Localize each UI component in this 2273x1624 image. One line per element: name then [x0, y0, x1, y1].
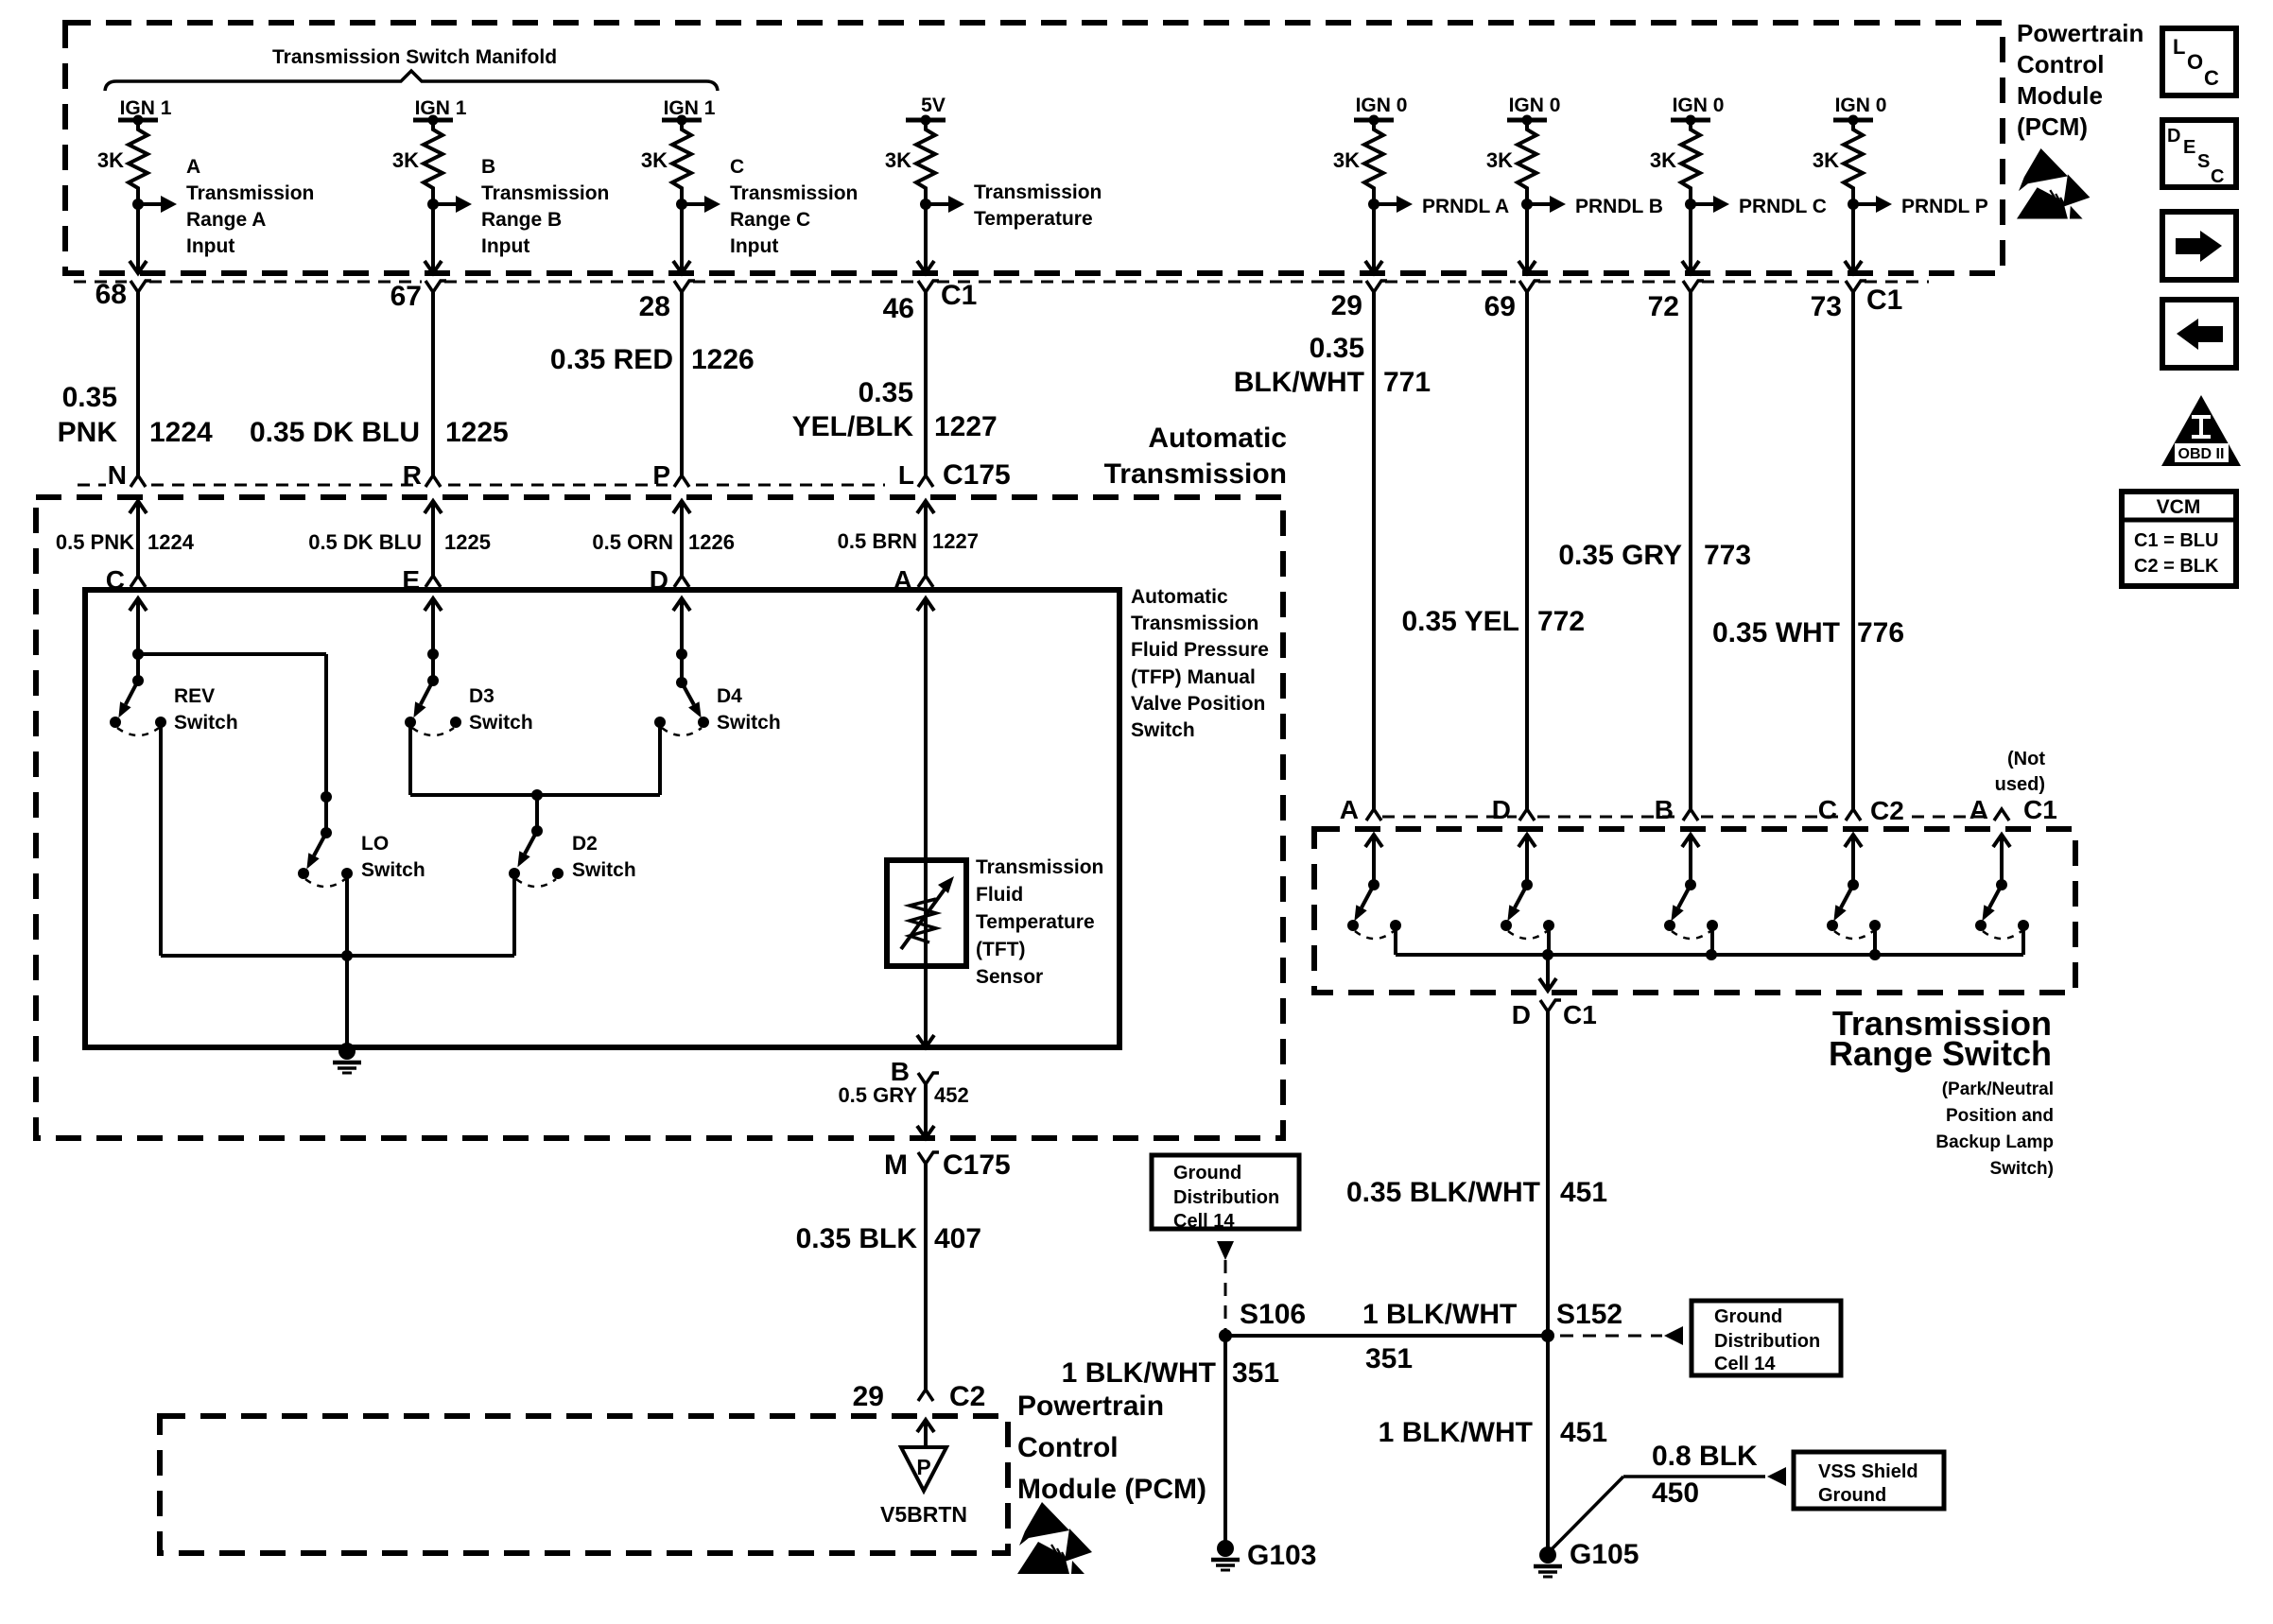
wire label 0.5 ORN 1226 [592, 530, 735, 554]
svg-text:C1: C1 [2023, 795, 2057, 824]
REV switch [110, 675, 166, 735]
svg-text:M: M [884, 1149, 908, 1181]
wire 73 to Transmission Range Switch [1851, 292, 1855, 809]
label Transmission Fluid Temperature (TFT) Sensor [976, 856, 1103, 988]
PCM bottom dashed box [160, 1416, 1008, 1553]
svg-text:Switch: Switch [174, 712, 238, 734]
TR connector thin dashed line [1382, 816, 1517, 819]
svg-text:3K: 3K [1813, 148, 1839, 172]
svg-text:351: 351 [1365, 1343, 1413, 1374]
arrow into TFP box col 2 [425, 598, 442, 611]
dashed wire S152 to Ground Distribution Cell 14 [1560, 1335, 1662, 1338]
svg-text:0.35 RED: 0.35 RED [550, 344, 673, 375]
TR switch 1 contact drop [1394, 925, 1397, 955]
svg-text:Transmission: Transmission [481, 182, 609, 204]
svg-text:69: 69 [1484, 291, 1516, 322]
svg-text:IGN 0: IGN 0 [1835, 95, 1887, 116]
TR output wire with arrow [1546, 955, 1550, 989]
svg-text:Cell 14: Cell 14 [1714, 1354, 1776, 1374]
svg-text:451: 451 [1560, 1177, 1607, 1208]
label Automatic Transmission Fluid Pressure (TFP) Manual Valve Position Switch [1131, 586, 1269, 741]
wire label 0.35 WHT 776 [1712, 617, 1904, 648]
signal label col 3 [730, 156, 858, 257]
PCM top module dashed box [65, 23, 2003, 273]
svg-text:Distribution: Distribution [1173, 1187, 1279, 1208]
svg-text:D: D [2167, 126, 2180, 147]
svg-text:N: N [108, 460, 127, 490]
junction dot on TR bus [1706, 949, 1717, 960]
label REV Switch [174, 685, 238, 734]
svg-text:Switch: Switch [469, 712, 533, 734]
ESD sensitivity symbol (PCM bottom) [1017, 1502, 1092, 1574]
junction dot on TR bus [1869, 949, 1881, 960]
icon box DESC [2162, 120, 2236, 187]
resistor R5 3K [1354, 115, 1394, 205]
svg-text:S152: S152 [1556, 1299, 1622, 1330]
Ground Distribution Cell 14 box (S106) [1152, 1155, 1299, 1229]
wire to TFP connector col 3 [680, 501, 684, 576]
svg-text:451: 451 [1560, 1417, 1607, 1448]
resistor R7 3K [1671, 115, 1710, 205]
connector fork col 2 [425, 281, 446, 292]
svg-text:Module: Module [2017, 81, 2103, 110]
svg-text:772: 772 [1537, 606, 1585, 637]
svg-text:D: D [1492, 795, 1511, 824]
brace under label [105, 71, 718, 91]
icon box arrow right [2162, 212, 2236, 280]
svg-text:Powertrain: Powertrain [1017, 1391, 1164, 1422]
connector C175 thin dashed line [78, 484, 106, 487]
svg-text:O: O [2187, 50, 2203, 74]
svg-text:Transmission: Transmission [1104, 458, 1287, 490]
svg-text:Sensor: Sensor [976, 966, 1043, 988]
svg-text:D2: D2 [572, 833, 598, 855]
svg-text:Input: Input [730, 235, 778, 257]
Automatic Transmission dashed box [36, 497, 1283, 1138]
svg-text:68: 68 [95, 279, 127, 310]
wire label 0.35 BLK/WHT 451 [1346, 1177, 1607, 1208]
VSS Shield Ground box [1794, 1452, 1944, 1509]
svg-text:(TFT): (TFT) [976, 939, 1025, 960]
label (Not used) [1995, 749, 2046, 795]
svg-text:0.35: 0.35 [1310, 333, 1364, 364]
svg-text:Control: Control [2017, 50, 2104, 78]
svg-text:PRNDL A: PRNDL A [1422, 196, 1509, 217]
svg-text:Transmission: Transmission [1131, 613, 1258, 634]
svg-text:(TFP) Manual: (TFP) Manual [1131, 666, 1256, 688]
node tap arrow col 5 [1368, 196, 1413, 213]
signal label col 1 [186, 156, 314, 257]
TR switch 4 arrow [1845, 835, 1862, 847]
svg-text:Range C: Range C [730, 209, 810, 231]
svg-text:S106: S106 [1240, 1299, 1306, 1330]
svg-text:1227: 1227 [934, 411, 998, 442]
svg-text:C1 = BLU: C1 = BLU [2134, 530, 2218, 551]
connector D C1 [1512, 1000, 1597, 1029]
wire label 0.35 GRY 773 [1558, 540, 1751, 571]
svg-text:Cell 14: Cell 14 [1173, 1211, 1235, 1232]
svg-text:1225: 1225 [444, 530, 491, 554]
svg-text:3K: 3K [885, 148, 911, 172]
svg-text:V5BRTN: V5BRTN [880, 1502, 967, 1527]
svg-text:D4: D4 [717, 685, 742, 707]
svg-text:0.5 GRY: 0.5 GRY [838, 1083, 917, 1107]
svg-text:C2 = BLK: C2 = BLK [2134, 556, 2219, 577]
arrow into PCM bottom [917, 1420, 934, 1432]
node tap arrow col 8 [1848, 196, 1892, 213]
svg-text:0.35 DK BLU: 0.35 DK BLU [250, 417, 420, 448]
Transmission Range Switch dashed box [1314, 829, 2075, 993]
wire S106-S152 1 BLK/WHT 351 [1225, 1334, 1548, 1338]
svg-text:Ground: Ground [1173, 1163, 1241, 1183]
TR switch 4 contact drop [1873, 925, 1877, 955]
svg-text:46: 46 [883, 293, 914, 324]
svg-text:IGN 0: IGN 0 [1509, 95, 1561, 116]
junction dot D2 branch [531, 789, 543, 801]
connector arrow at PCM border col 6 [1518, 261, 1536, 273]
svg-text:29: 29 [1331, 290, 1362, 321]
svg-text:28: 28 [639, 291, 670, 322]
svg-text:E: E [2183, 137, 2195, 158]
wire label 0.5 DK BLU 1225 [308, 530, 491, 554]
wire C to REV switch [136, 598, 140, 681]
svg-text:Position and: Position and [1946, 1106, 2054, 1126]
svg-text:Powertrain: Powertrain [2017, 19, 2143, 47]
arrow at AT box bottom [917, 1126, 934, 1138]
svg-text:IGN 0: IGN 0 [1673, 95, 1725, 116]
power symbol P (V5BRTN) [901, 1447, 946, 1491]
svg-text:C175: C175 [943, 1149, 1011, 1181]
node tap arrow col 6 [1521, 196, 1566, 213]
svg-text:452: 452 [934, 1083, 969, 1107]
TR switch 1 [1347, 835, 1401, 939]
svg-text:(Park/Neutral: (Park/Neutral [1942, 1080, 2054, 1099]
svg-text:351: 351 [1232, 1357, 1279, 1389]
svg-text:C1: C1 [1563, 1000, 1597, 1029]
connector arrow at PCM border col 2 [425, 261, 442, 273]
wire TFT to box edge [924, 966, 928, 1045]
connector arrow at PCM border col 4 [917, 261, 934, 273]
connector pin B [891, 1057, 939, 1086]
svg-text:IGN 1: IGN 1 [120, 97, 172, 119]
svg-text:Valve Position: Valve Position [1131, 693, 1265, 715]
svg-text:(PCM): (PCM) [2017, 112, 2088, 141]
svg-text:Switch): Switch) [1989, 1159, 2054, 1179]
svg-text:72: 72 [1648, 291, 1679, 322]
resistor R1 3K [118, 115, 158, 205]
TFP Manual Valve Position Switch box [85, 590, 1119, 1047]
wire D2 to bus [512, 873, 516, 956]
TR switch 4 [1827, 835, 1881, 939]
TR switch 3 [1664, 835, 1718, 939]
node tap arrow col 1 [132, 196, 177, 213]
node tap arrow col 7 [1685, 196, 1729, 213]
arrow into AT box col 3 [673, 501, 690, 513]
svg-text:PRNDL P: PRNDL P [1901, 196, 1988, 217]
svg-text:773: 773 [1704, 540, 1751, 571]
wire label 0.35 YEL 772 [1401, 606, 1585, 637]
wire 72 to Transmission Range Switch [1689, 292, 1692, 809]
arrow into TFP box col 1 [130, 598, 147, 611]
svg-text:0.5 DK BLU: 0.5 DK BLU [308, 530, 422, 554]
TFT thermistor symbol [924, 860, 928, 966]
wire to TFP connector col 1 [136, 501, 140, 576]
connector M C175 [884, 1149, 1011, 1181]
node tap arrow col 4 [920, 196, 964, 213]
connector fork col 5 [1366, 281, 1387, 292]
connector fork col 1 [130, 281, 151, 292]
D2 switch [509, 795, 564, 887]
wire 29 to Transmission Range Switch [1372, 292, 1376, 809]
wire to TFP connector col 4 [924, 501, 928, 576]
svg-text:Range B: Range B [481, 209, 562, 231]
connector 29 C2 [853, 1381, 986, 1412]
svg-text:Transmission Switch Manifold: Transmission Switch Manifold [272, 46, 557, 68]
svg-text:C2: C2 [949, 1381, 985, 1412]
svg-text:Range Switch: Range Switch [1829, 1034, 2052, 1073]
svg-text:C: C [1818, 795, 1837, 824]
svg-text:3K: 3K [1333, 148, 1360, 172]
svg-text:PNK: PNK [58, 417, 118, 448]
wire 67 to C175 [431, 292, 435, 475]
connector fork col 3 [674, 281, 695, 292]
svg-text:73: 73 [1811, 291, 1842, 322]
resistor R8 3K [1833, 115, 1873, 205]
svg-text:0.35: 0.35 [859, 377, 913, 408]
svg-text:0.35 WHT: 0.35 WHT [1712, 617, 1840, 648]
svg-text:P: P [916, 1455, 930, 1479]
wire col 2 down to PCM border [431, 204, 435, 271]
svg-text:REV: REV [174, 685, 215, 707]
connector arrow at PCM border col 7 [1682, 261, 1699, 273]
svg-text:Ground: Ground [1818, 1485, 1886, 1506]
signal label col 5 [1422, 196, 1509, 217]
svg-text:Backup Lamp: Backup Lamp [1935, 1132, 2054, 1152]
TR switch 5 contact drop [2021, 925, 2025, 955]
svg-text:Temperature: Temperature [974, 208, 1093, 230]
svg-text:D: D [1512, 1000, 1531, 1029]
svg-text:Switch: Switch [717, 712, 781, 734]
svg-text:1 BLK/WHT: 1 BLK/WHT [1379, 1417, 1533, 1448]
svg-text:1226: 1226 [691, 344, 755, 375]
wire 46 to C175 [924, 292, 928, 475]
wire label 0.35 BLK/WHT 771 [1234, 333, 1431, 398]
svg-text:Fluid Pressure: Fluid Pressure [1131, 639, 1269, 661]
wire label 0.35 RED 1226 [550, 344, 755, 375]
svg-text:Control: Control [1017, 1432, 1119, 1463]
node tap arrow col 3 [676, 196, 720, 213]
wire 68 to C175 [136, 292, 140, 475]
svg-text:C: C [730, 156, 744, 178]
arrow into AT box col 1 [130, 501, 147, 513]
svg-text:PRNDL C: PRNDL C [1739, 196, 1827, 217]
svg-text:0.5 BRN: 0.5 BRN [838, 529, 917, 553]
arrow into TFP box col 4 [917, 598, 934, 611]
signal label col 2 [481, 156, 609, 257]
TR switch 2 contact drop [1547, 925, 1551, 955]
svg-text:A: A [186, 156, 200, 178]
svg-text:B: B [1655, 795, 1674, 824]
signal label col 7 [1739, 196, 1827, 217]
svg-text:3K: 3K [1650, 148, 1676, 172]
svg-text:0.8 BLK: 0.8 BLK [1652, 1441, 1758, 1472]
wire A into TFT sensor [924, 598, 928, 860]
svg-text:C: C [2204, 66, 2219, 90]
LO switch [298, 791, 353, 887]
svg-text:Ground: Ground [1714, 1306, 1782, 1327]
svg-text:3K: 3K [641, 148, 668, 172]
wire D to D4 switch [680, 598, 684, 682]
svg-text:0.35 GRY: 0.35 GRY [1558, 540, 1682, 571]
label D3 Switch [469, 685, 533, 734]
D3 switch [405, 675, 461, 735]
svg-text:450: 450 [1652, 1477, 1699, 1509]
svg-text:3K: 3K [392, 148, 419, 172]
svg-text:Transmission: Transmission [186, 182, 314, 204]
svg-text:0.5 PNK: 0.5 PNK [56, 530, 134, 554]
icon OBD II triangle [2161, 395, 2241, 466]
svg-text:C: C [2211, 166, 2224, 187]
svg-text:IGN 1: IGN 1 [415, 97, 467, 119]
svg-text:5V: 5V [921, 95, 946, 116]
label Powertrain Control Module (PCM) top right [2017, 19, 2143, 141]
connector fork col 7 [1683, 281, 1704, 292]
svg-text:C2: C2 [1870, 796, 1904, 825]
wire col 3 down to PCM border [680, 204, 684, 271]
wire 0.8 BLK 450 to VSS Shield Ground [1548, 1477, 1623, 1553]
svg-text:776: 776 [1857, 617, 1904, 648]
svg-text:VCM: VCM [2157, 496, 2201, 518]
connector arrow at PCM border col 3 [673, 261, 690, 273]
svg-text:Transmission: Transmission [730, 182, 858, 204]
svg-text:(Not: (Not [2007, 749, 2045, 769]
svg-text:used): used) [1995, 774, 2045, 795]
svg-text:771: 771 [1383, 367, 1431, 398]
splice S152 [1541, 1329, 1554, 1342]
signal label col 6 [1575, 196, 1663, 217]
icon box arrow left [2162, 300, 2236, 368]
wire S106 to G103 1 BLK/WHT 351 [1223, 1336, 1227, 1546]
svg-text:Transmission: Transmission [976, 856, 1103, 878]
junction dot ground drop [341, 950, 353, 961]
TR switch 3 contact drop [1710, 925, 1714, 955]
svg-text:Automatic: Automatic [1148, 423, 1287, 454]
ESD sensitivity symbol (PCM top) [2017, 148, 2090, 219]
wire D4 left contact down [658, 722, 662, 795]
wire label 0.5 GRY 452 [838, 1083, 968, 1136]
TR switch 5 arrow [1993, 835, 2010, 847]
svg-text:C1: C1 [941, 280, 977, 311]
wire 28 to C175 [680, 292, 684, 475]
wire col 7 down to PCM border [1689, 204, 1692, 271]
ground G105 [1534, 1539, 1639, 1577]
svg-text:BLK/WHT: BLK/WHT [1234, 367, 1364, 398]
svg-text:Input: Input [481, 235, 529, 257]
svg-text:0.35 YEL: 0.35 YEL [1401, 606, 1519, 637]
svg-text:G105: G105 [1570, 1539, 1639, 1570]
wire to TFP connector col 2 [431, 501, 435, 576]
svg-text:C1: C1 [1866, 285, 1902, 316]
label Transmission Range Switch [1829, 1004, 2052, 1073]
TR switch 1 arrow [1365, 835, 1382, 847]
svg-text:1 BLK/WHT: 1 BLK/WHT [1062, 1357, 1216, 1389]
svg-text:IGN 1: IGN 1 [664, 97, 716, 119]
label D2 Switch [572, 833, 636, 881]
signal label col 8 [1901, 196, 1988, 217]
svg-text:0.35: 0.35 [62, 382, 117, 413]
svg-text:Temperature: Temperature [976, 911, 1095, 933]
wire label 0.35 PNK 1224 [58, 382, 213, 448]
splice S106 [1219, 1329, 1232, 1342]
svg-text:C175: C175 [943, 459, 1011, 491]
junction dot branch to LO [132, 648, 144, 660]
svg-text:1227: 1227 [932, 529, 979, 553]
node tap arrow col 2 [427, 196, 472, 213]
D4 switch [654, 677, 709, 735]
Ground Distribution Cell 14 box (right) [1692, 1301, 1841, 1375]
TR switch 2 [1501, 835, 1554, 939]
svg-text:L: L [2173, 35, 2185, 59]
resistor R2 3K [413, 115, 453, 205]
svg-text:Module (PCM): Module (PCM) [1017, 1474, 1206, 1505]
wire 451 to S152 [1546, 1011, 1550, 1553]
arrow into AT box col 2 [425, 501, 442, 513]
svg-text:Switch: Switch [1131, 719, 1195, 741]
connector arrow at PCM border col 1 [130, 261, 147, 273]
svg-text:D3: D3 [469, 685, 495, 707]
svg-text:Switch: Switch [572, 859, 636, 881]
svg-text:VSS Shield: VSS Shield [1818, 1461, 1918, 1482]
wire 69 to Transmission Range Switch [1525, 292, 1529, 809]
dashed wire from Ground Distribution to S106 [1217, 1241, 1234, 1260]
TFT sensor box [887, 860, 966, 966]
svg-text:0.35 BLK/WHT: 0.35 BLK/WHT [1346, 1177, 1540, 1208]
label LO Switch [361, 833, 425, 881]
resistor R4 3K [906, 115, 946, 205]
legend VCM box [2122, 492, 2236, 586]
svg-text:G103: G103 [1247, 1540, 1316, 1571]
wire label 0.35 YEL/BLK 1227 [792, 377, 998, 442]
TR switch common bus [1396, 953, 2023, 957]
svg-text:1224: 1224 [149, 417, 213, 448]
TR switch 5 [1975, 835, 2029, 939]
svg-text:0.35 BLK: 0.35 BLK [796, 1223, 918, 1254]
svg-text:Distribution: Distribution [1714, 1331, 1820, 1352]
svg-text:1 BLK/WHT: 1 BLK/WHT [1362, 1299, 1517, 1330]
wire label 0.5 PNK 1224 [56, 530, 195, 554]
connector fork col 6 [1519, 281, 1540, 292]
svg-text:S: S [2197, 151, 2210, 172]
connector fork col 8 [1846, 281, 1866, 292]
label Powertrain Control Module (PCM) bottom [1017, 1391, 1206, 1505]
connector arrow at PCM border col 5 [1365, 261, 1382, 273]
svg-text:A: A [1969, 795, 1988, 824]
signal label col 4 [974, 181, 1102, 230]
svg-text:B: B [481, 156, 495, 178]
wire branch to LO switch [138, 652, 326, 656]
svg-text:A: A [1340, 795, 1359, 824]
wire LO to bus [345, 873, 349, 956]
wire col 8 down to PCM border [1851, 204, 1855, 271]
svg-text:R: R [403, 460, 422, 490]
svg-text:Automatic: Automatic [1131, 586, 1228, 608]
resistor R6 3K [1507, 115, 1547, 205]
label (Park/Neutral Position and Backup Lamp Switch) [1935, 1080, 2054, 1179]
svg-text:Fluid: Fluid [976, 884, 1023, 906]
svg-text:IGN 0: IGN 0 [1356, 95, 1408, 116]
svg-text:Input: Input [186, 235, 234, 257]
wire label 0.35 BLK 407 [796, 1164, 981, 1390]
